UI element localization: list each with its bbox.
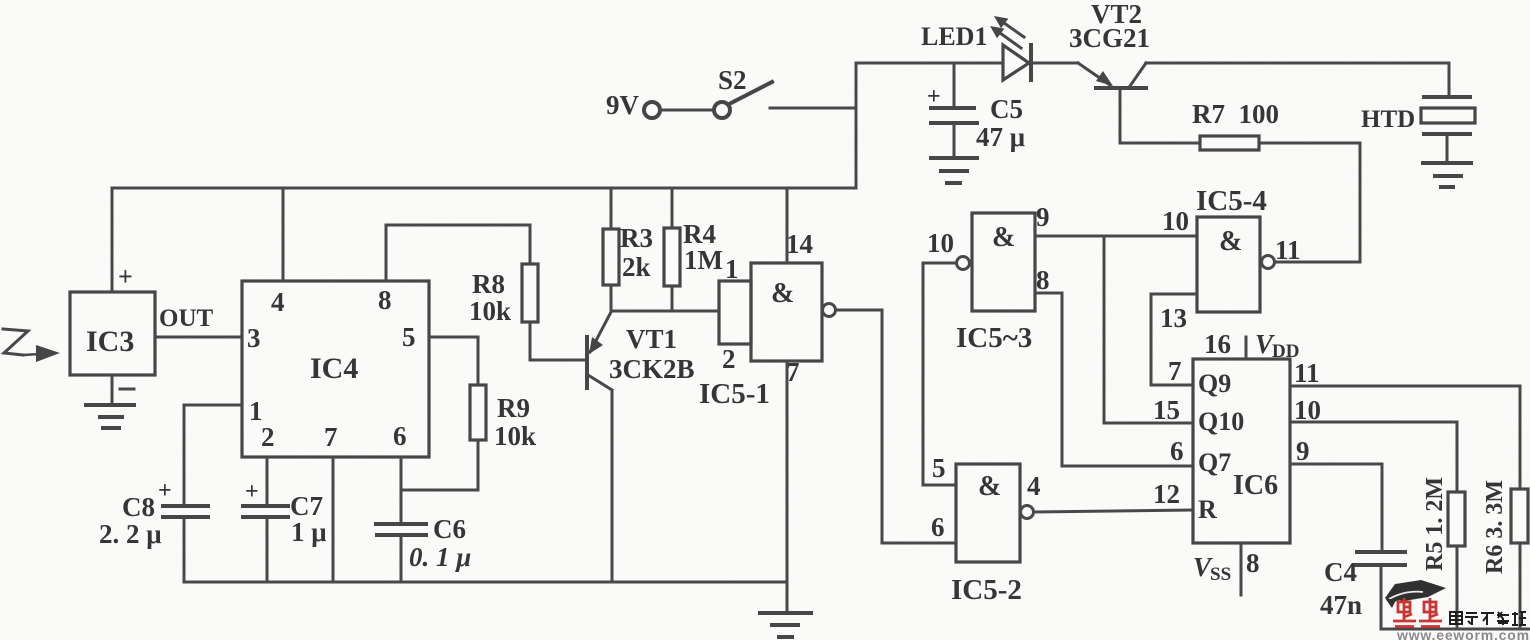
logo cap bbox=[1385, 580, 1446, 608]
resistor R6 bbox=[1511, 489, 1528, 543]
wire VT1 collector to rail bbox=[611, 392, 614, 582]
wire pin10 to IC5-2 pin5 bbox=[923, 263, 956, 485]
wire between switch terminals bbox=[660, 109, 714, 112]
wire C8 bottom to rail bbox=[183, 519, 186, 582]
ground below C5 bbox=[931, 158, 977, 183]
wire R3 top to rail bbox=[610, 188, 613, 229]
wire C5 top lead bbox=[953, 63, 956, 107]
capacitor C4 bbox=[1356, 552, 1405, 565]
wire C4 bottom to rail bbox=[1380, 566, 1383, 629]
wire bottom right rail bbox=[1381, 628, 1530, 631]
wire riser rail to top line bbox=[855, 63, 858, 188]
op-amp IC6 box bbox=[1193, 359, 1290, 543]
wire pin6 riser bbox=[400, 457, 403, 490]
wire pin9 to C4 bbox=[1290, 464, 1382, 550]
resistor R8 bbox=[522, 264, 538, 322]
wire pin7 to ground bbox=[786, 361, 789, 612]
switch S2 arm bbox=[731, 82, 772, 103]
resistor R9 bbox=[470, 385, 486, 440]
wire C6 bottom to rail bbox=[400, 537, 403, 582]
wire LED to VT2 emitter bbox=[1031, 62, 1078, 65]
nand IC5-3 body bbox=[972, 213, 1035, 311]
wire C6/R9 junction bbox=[401, 489, 478, 492]
nand IC5-2 body bbox=[956, 464, 1020, 562]
wire R4 top to rail bbox=[671, 188, 674, 228]
wire VSS pin8 stub bbox=[1240, 543, 1243, 595]
wire (paper texture overlay) bbox=[0, 0, 1, 1]
IC5-4 output bubble pin11 bbox=[1262, 256, 1275, 269]
IC5-2 output bubble pin4 bbox=[1021, 506, 1034, 519]
wire pin13 to IC6 Q9 bbox=[1151, 294, 1197, 385]
transistor VT1 bbox=[587, 312, 612, 390]
VSS label bbox=[1193, 552, 1231, 585]
resistor R3 bbox=[603, 229, 619, 285]
wire R3 bottom to node bbox=[610, 285, 613, 311]
wire S2 to vertical riser bbox=[770, 107, 856, 110]
wire VT2 collector to HTD bbox=[1146, 63, 1449, 96]
wire pin1 to C8 top bbox=[184, 405, 242, 503]
capacitor C6 bbox=[376, 524, 426, 535]
wire pin14 to rail bbox=[786, 188, 789, 263]
wire bottom rail bbox=[184, 581, 787, 584]
IC5-3 input bubble pin10 bbox=[957, 257, 970, 270]
nand IC5-4 body bbox=[1197, 217, 1260, 312]
node Z input symbol bbox=[3, 329, 60, 362]
wire base node to IC5-1 inputs bbox=[611, 310, 719, 313]
wire pin2 to C7 top bbox=[266, 457, 269, 503]
pin 16 tick bbox=[1245, 337, 1248, 359]
wire pin5 to R9 bbox=[429, 337, 478, 385]
wire R7 to IC5-4 output bbox=[1259, 143, 1360, 262]
ground below HTD bbox=[1423, 163, 1471, 187]
wire R4 bottom to node bbox=[671, 286, 674, 311]
resistor R5 bbox=[1448, 492, 1465, 546]
wire pin8 riser to R8 bbox=[386, 225, 530, 281]
wire pin8 to IC6 Q7 bbox=[1035, 293, 1193, 466]
wire pin7 to rail bbox=[332, 457, 335, 582]
wire VT2 base down bbox=[1120, 88, 1200, 143]
transistor VT2 bbox=[1078, 63, 1146, 88]
wire R5 bottom to rail bbox=[1456, 546, 1459, 629]
buzzer HTD bbox=[1421, 97, 1475, 134]
wire IC3 OUT to IC4 pin3 bbox=[155, 336, 242, 339]
wire R8 bottom to VT1 base bbox=[530, 322, 584, 360]
capacitor C8 bbox=[163, 506, 208, 517]
node minus mark bbox=[120, 388, 134, 391]
diode LED1 bbox=[1003, 45, 1031, 80]
IC5-1 output bubble bbox=[823, 304, 836, 317]
wire R9 bottom bbox=[477, 440, 480, 490]
op-amp IC4 box bbox=[242, 281, 429, 457]
wire pin9 branch to IC6 Q10 bbox=[1104, 236, 1193, 423]
wire HTD bottom lead bbox=[1446, 134, 1449, 162]
capacitor C7 bbox=[243, 506, 288, 517]
IC3 U-box bbox=[70, 292, 155, 375]
switch S2 terminal 1 bbox=[644, 102, 660, 118]
wire pin4 to IC6 R bbox=[1034, 510, 1193, 512]
ground main bbox=[760, 613, 811, 637]
VDD label bbox=[1255, 329, 1299, 362]
logo chongchong red characters bbox=[1393, 598, 1442, 627]
LED1 emission arrows bbox=[990, 16, 1024, 48]
capacitor C5 bbox=[931, 108, 977, 123]
wire IC5-1 output to IC5-2 pin6 bbox=[836, 310, 956, 543]
switch S2 terminal 2 bbox=[714, 102, 730, 118]
resistor R4 bbox=[664, 228, 680, 286]
wire pin9 to IC5-4 pin10 bbox=[1035, 235, 1197, 238]
wire pin4 riser to rail bbox=[282, 188, 285, 281]
nand IC5-1 input block pins 1-2 bbox=[719, 281, 751, 344]
wire C5 bottom lead bbox=[953, 124, 956, 157]
logo site name glyphs bbox=[1450, 612, 1526, 625]
wire top supply line to LED bbox=[856, 62, 1003, 65]
resistor R7 bbox=[1200, 136, 1259, 150]
wire C7 bottom to rail bbox=[266, 519, 269, 582]
wire R6 bottom to rail bbox=[1519, 543, 1522, 629]
wire pin11 to R6 bbox=[1290, 386, 1520, 489]
wire IC3 to ground bbox=[111, 375, 114, 404]
wire top rail bbox=[112, 187, 856, 190]
wire C6 top lead bbox=[400, 490, 403, 522]
wire IC3 top to top rail bbox=[111, 188, 114, 292]
nand IC5-1 body bbox=[751, 263, 822, 361]
wire pin10 to R5 bbox=[1290, 422, 1457, 492]
ground below IC3 bbox=[86, 405, 134, 428]
